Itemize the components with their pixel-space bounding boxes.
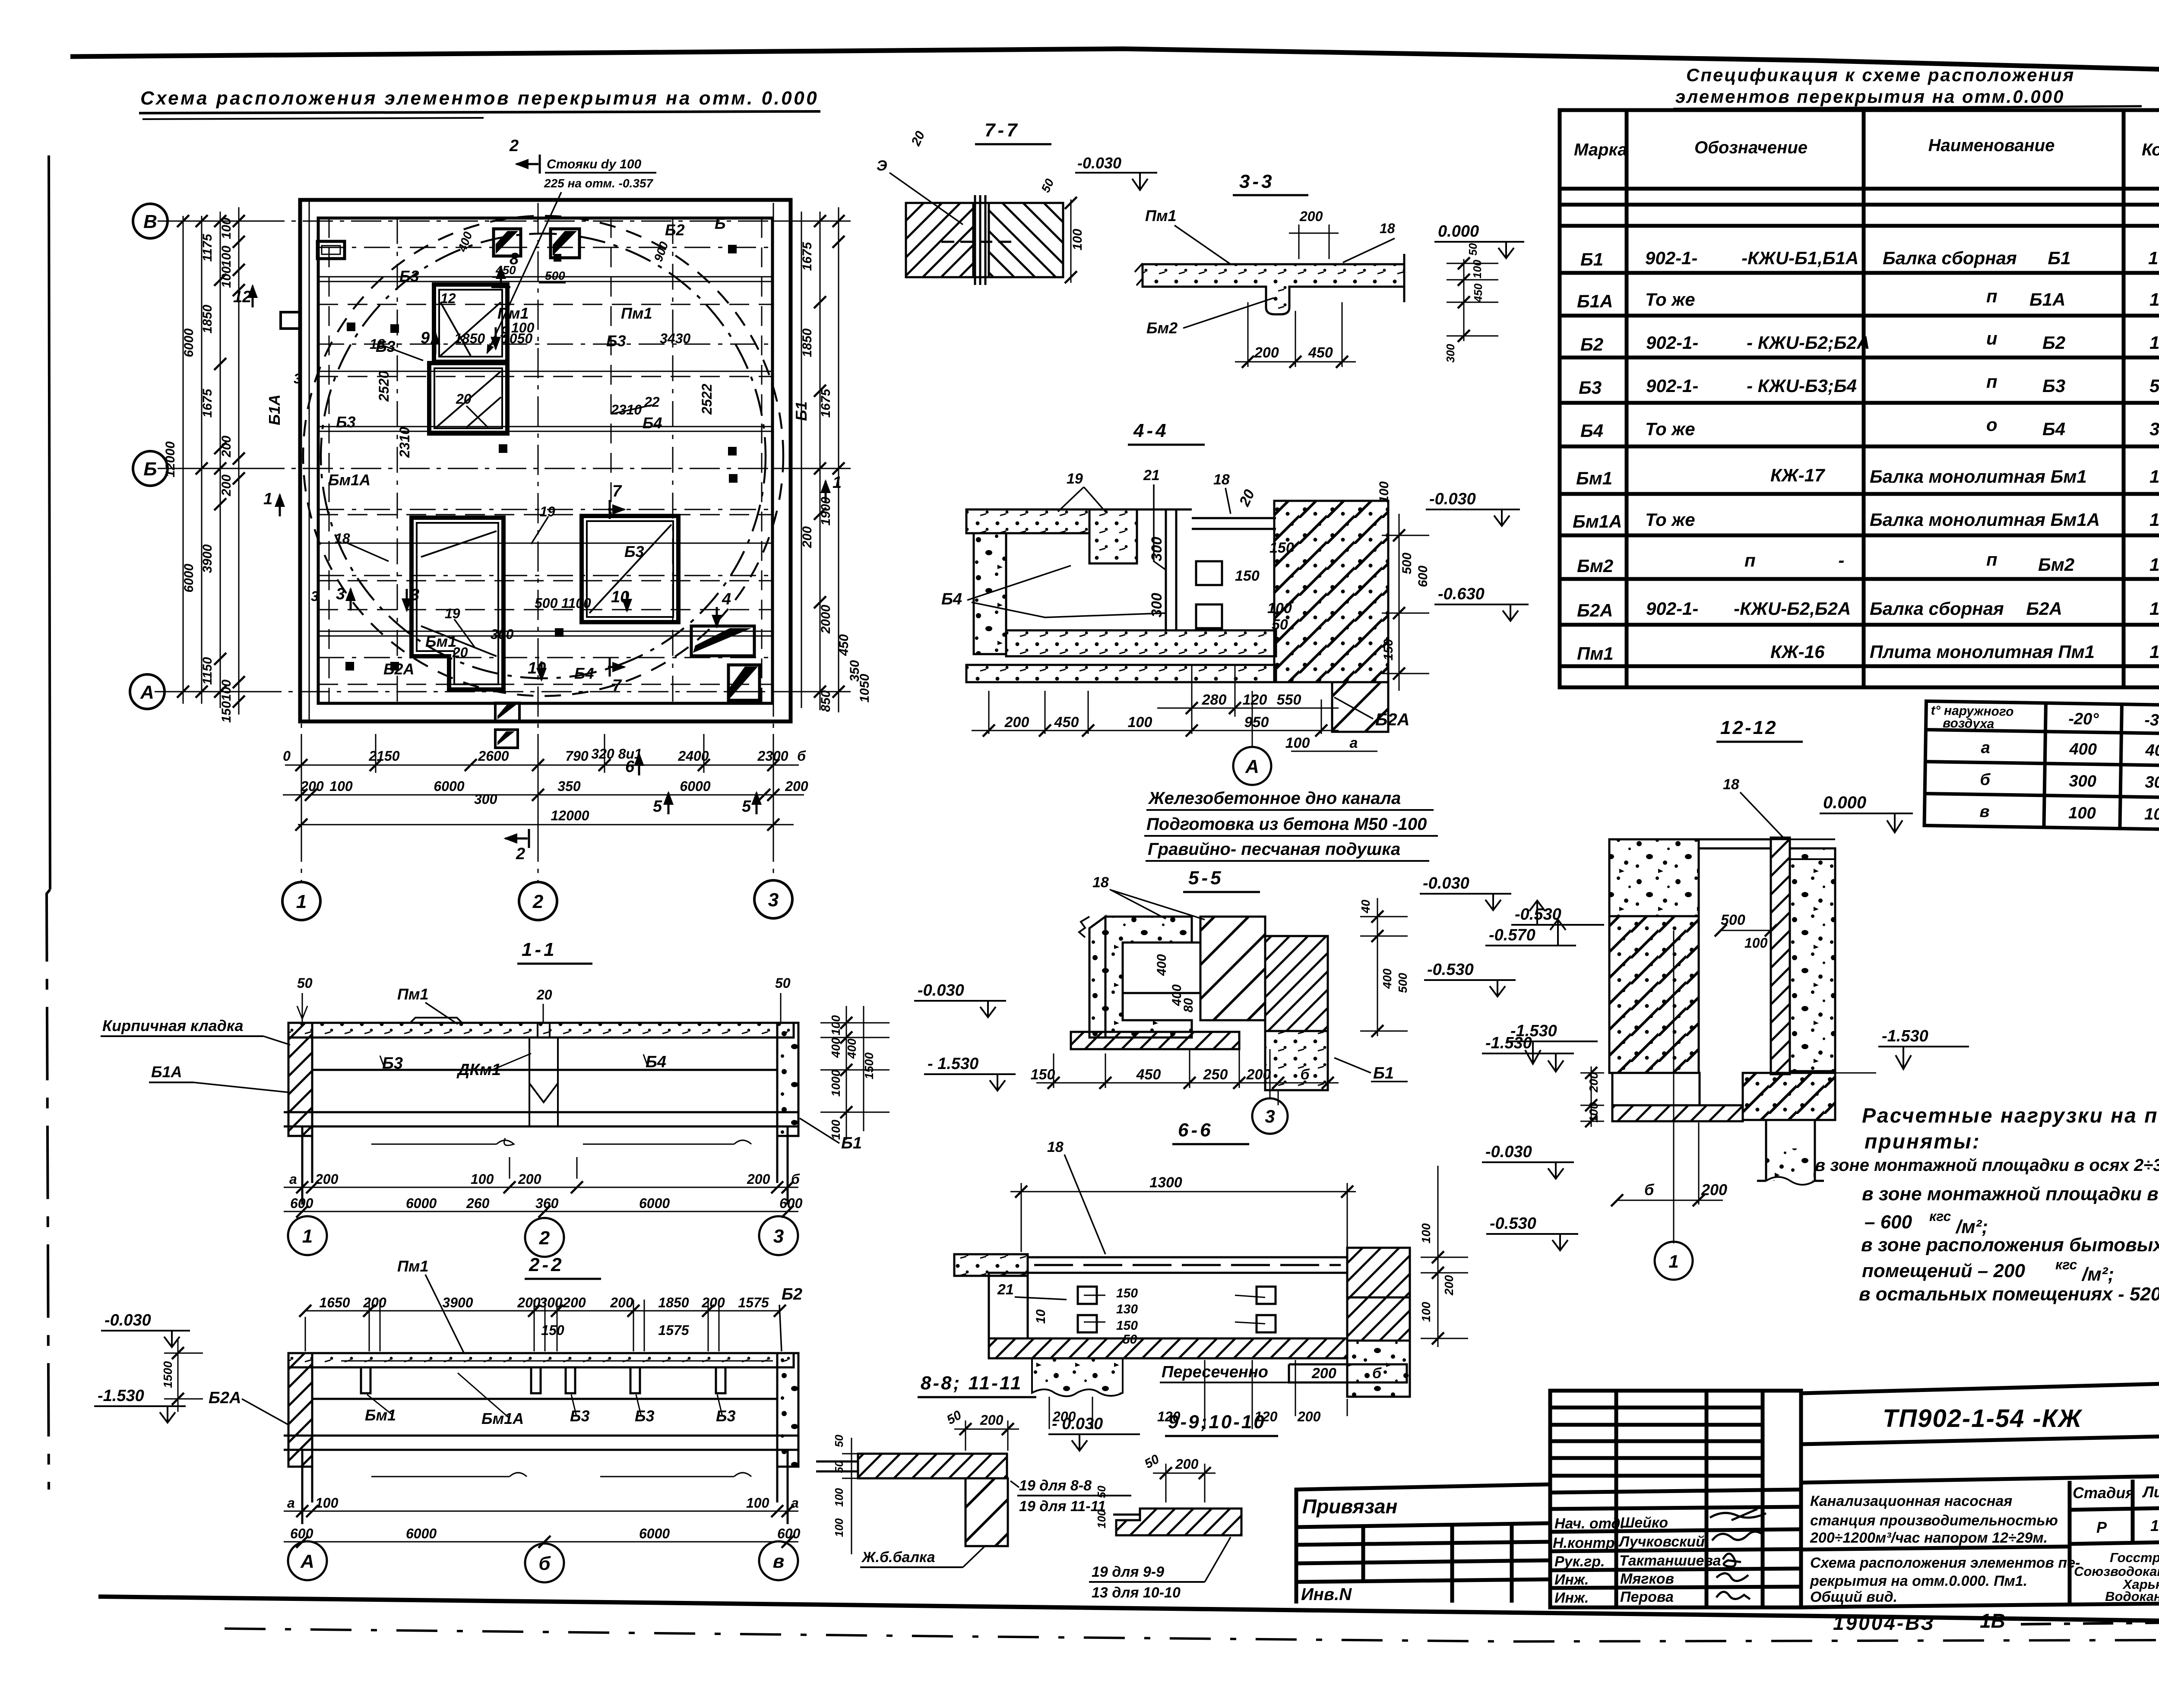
svg-text:1850: 1850 — [200, 304, 215, 333]
svg-text:б: б — [1644, 1181, 1655, 1199]
svg-text:200: 200 — [518, 1171, 541, 1187]
svg-text:3: 3 — [294, 371, 301, 386]
svg-text:а: а — [289, 1171, 297, 1187]
svg-text:200: 200 — [1004, 714, 1029, 731]
svg-text:б: б — [1300, 1066, 1310, 1083]
svg-text:Б3: Б3 — [399, 267, 419, 285]
svg-text:1: 1 — [833, 474, 842, 492]
svg-text:Подготовка из бетона М50 -100: Подготовка из бетона М50 -100 — [1146, 815, 1427, 834]
svg-text:1: 1 — [2150, 598, 2159, 619]
svg-text:-0.030: -0.030 — [1485, 1143, 1532, 1161]
svg-text:600: 600 — [290, 1196, 313, 1211]
svg-text:100: 100 — [1128, 714, 1152, 731]
svg-text:100: 100 — [1095, 1509, 1108, 1528]
svg-text:100: 100 — [829, 1120, 842, 1140]
svg-text:20: 20 — [456, 391, 472, 407]
svg-text:1: 1 — [2150, 332, 2159, 353]
svg-text:– 600: – 600 — [1865, 1211, 1912, 1233]
svg-text:Железобетонное дно канала: Железобетонное дно канала — [1148, 789, 1401, 808]
svg-text:Б1А: Б1А — [2029, 289, 2065, 310]
svg-text:200: 200 — [219, 474, 234, 497]
svg-text:150: 150 — [1235, 568, 1260, 584]
svg-text:1150: 1150 — [200, 657, 215, 685]
svg-text:450: 450 — [495, 263, 516, 277]
svg-text:Б1А: Б1А — [266, 394, 283, 425]
svg-text:2150: 2150 — [368, 748, 399, 764]
svg-text:Обозначение: Обозначение — [1694, 138, 1808, 157]
svg-text:Пм1: Пм1 — [621, 304, 652, 322]
svg-text:3900: 3900 — [200, 544, 215, 573]
svg-text:200: 200 — [1246, 1066, 1271, 1083]
svg-text:2310: 2310 — [611, 402, 642, 418]
svg-text:100: 100 — [829, 1015, 842, 1035]
svg-text:100: 100 — [219, 266, 234, 288]
svg-text:/м²;: /м²; — [2081, 1264, 2114, 1285]
svg-text:200: 200 — [363, 1295, 386, 1310]
svg-text:Б4: Б4 — [1580, 421, 1603, 441]
svg-text:790: 790 — [565, 748, 589, 764]
svg-text:Б2: Б2 — [2042, 332, 2065, 353]
svg-text:Б2: Б2 — [1580, 334, 1603, 354]
svg-text:2400: 2400 — [677, 748, 709, 764]
svg-text:10: 10 — [611, 588, 629, 606]
svg-text:1: 1 — [2150, 554, 2159, 575]
svg-text:Бм1А: Бм1А — [328, 471, 370, 489]
svg-text:600: 600 — [1416, 566, 1430, 587]
svg-text:1900: 1900 — [819, 497, 833, 525]
svg-text:Госстрой СССР: Госстрой СССР — [2110, 1550, 2159, 1565]
svg-text:950: 950 — [1244, 714, 1269, 731]
svg-text:130: 130 — [1116, 1302, 1138, 1316]
svg-text:5-5: 5-5 — [1188, 867, 1224, 889]
svg-text:Привязан: Привязан — [1302, 1495, 1397, 1518]
svg-text:18: 18 — [1213, 471, 1230, 488]
svg-text:200: 200 — [1297, 1409, 1321, 1424]
svg-text:9: 9 — [421, 329, 430, 347]
svg-text:100: 100 — [1267, 600, 1292, 617]
svg-text:1000: 1000 — [829, 1069, 842, 1097]
svg-text:12: 12 — [233, 288, 251, 306]
svg-text:а: а — [1981, 739, 1990, 757]
svg-text:станция производительностью: станция производительностью — [1810, 1512, 2058, 1529]
svg-text:100: 100 — [833, 1518, 845, 1537]
svg-text:- 1.530: - 1.530 — [928, 1055, 978, 1073]
svg-text:в: в — [773, 1551, 785, 1572]
svg-text:100: 100 — [1471, 259, 1484, 278]
svg-text:2: 2 — [509, 137, 519, 155]
svg-text:250: 250 — [1203, 1066, 1228, 1083]
svg-text:7: 7 — [612, 677, 622, 695]
svg-text:1-1: 1-1 — [522, 939, 557, 960]
svg-text:20: 20 — [452, 645, 468, 660]
svg-text:3: 3 — [1265, 1106, 1275, 1126]
svg-text:0: 0 — [283, 748, 291, 764]
svg-text:Пм1: Пм1 — [397, 985, 429, 1003]
svg-text:Схема расположения элементов п: Схема расположения элементов перекрытия … — [140, 88, 819, 109]
svg-text:2: 2 — [516, 845, 525, 863]
svg-text:Пм1: Пм1 — [397, 1257, 429, 1275]
svg-text:-1.530: -1.530 — [1882, 1027, 1928, 1045]
svg-text:200: 200 — [701, 1295, 725, 1310]
svg-text:50: 50 — [1466, 243, 1479, 256]
svg-text:-1.530: -1.530 — [1510, 1022, 1557, 1040]
svg-text:ДКм1: ДКм1 — [456, 1061, 501, 1079]
svg-text:18: 18 — [1723, 776, 1739, 793]
svg-text:21: 21 — [997, 1281, 1014, 1298]
svg-text:3: 3 — [311, 588, 319, 604]
svg-text:Бм1: Бм1 — [365, 1406, 396, 1424]
svg-text:6000: 6000 — [680, 778, 710, 794]
svg-text:Кирпичная кладка: Кирпичная кладка — [102, 1017, 244, 1034]
svg-text:550: 550 — [1277, 692, 1301, 708]
svg-text:Плита монолитная Пм1: Плита монолитная Пм1 — [1870, 642, 2095, 662]
svg-text:То же: То же — [1645, 289, 1695, 310]
svg-text:7: 7 — [612, 482, 622, 500]
svg-text:2522: 2522 — [699, 384, 715, 415]
svg-text:Э: Э — [877, 158, 887, 174]
svg-text:7-7: 7-7 — [985, 120, 1020, 141]
svg-text:1175: 1175 — [200, 233, 215, 262]
svg-text:КЖ-17: КЖ-17 — [1770, 465, 1825, 485]
svg-text:260: 260 — [466, 1196, 490, 1211]
svg-text:6000: 6000 — [639, 1196, 670, 1211]
svg-text:Б4: Б4 — [941, 590, 962, 608]
svg-text:400: 400 — [2145, 741, 2159, 760]
svg-text:Бм1: Бм1 — [1576, 468, 1612, 488]
svg-text:2: 2 — [532, 891, 544, 912]
svg-text:19 для 11-11: 19 для 11-11 — [1019, 1498, 1106, 1515]
svg-text:Канализационная насосная: Канализационная насосная — [1810, 1493, 2012, 1509]
svg-text:20: 20 — [536, 987, 552, 1003]
svg-text:а: а — [1350, 735, 1358, 751]
svg-text:50: 50 — [833, 1435, 845, 1447]
svg-text:Б2: Б2 — [782, 1285, 802, 1303]
svg-text:200: 200 — [315, 1171, 339, 1187]
svg-text:Б3: Б3 — [2042, 376, 2065, 396]
svg-text:150: 150 — [1116, 1286, 1138, 1300]
svg-text:19 для 8-8: 19 для 8-8 — [1019, 1477, 1092, 1494]
svg-text:3: 3 — [336, 585, 345, 603]
svg-text:200: 200 — [1254, 345, 1279, 361]
svg-text:в: в — [1979, 803, 1990, 821]
svg-text:5: 5 — [2150, 376, 2159, 396]
svg-text:б: б — [797, 748, 806, 764]
svg-text:4: 4 — [722, 590, 731, 608]
svg-text:1300: 1300 — [1149, 1174, 1182, 1191]
svg-text:-0.530: -0.530 — [1427, 961, 1474, 979]
svg-text:1500: 1500 — [862, 1052, 876, 1079]
svg-text:Б2: Б2 — [665, 221, 685, 239]
svg-text:-0.030: -0.030 — [1077, 154, 1121, 172]
svg-text:18: 18 — [1380, 221, 1395, 236]
svg-text:450: 450 — [837, 634, 851, 656]
svg-text:2-2: 2-2 — [529, 1254, 564, 1275]
svg-text:200: 200 — [1175, 1456, 1199, 1472]
svg-text:Н.контр.: Н.контр. — [1553, 1535, 1619, 1551]
svg-text:Б3: Б3 — [336, 413, 356, 431]
svg-text:100: 100 — [2144, 805, 2159, 824]
svg-text:200: 200 — [219, 436, 234, 458]
svg-text:6000: 6000 — [406, 1526, 437, 1541]
svg-text:-1.530: -1.530 — [98, 1387, 144, 1405]
svg-text:150: 150 — [1381, 639, 1396, 661]
svg-text:8-8; 11-11: 8-8; 11-11 — [921, 1373, 1023, 1394]
svg-text:6-6: 6-6 — [1178, 1120, 1213, 1141]
svg-text:Инж.: Инж. — [1554, 1572, 1589, 1588]
svg-text:Б2А: Б2А — [209, 1389, 241, 1407]
svg-text:Тактаншиева: Тактаншиева — [1619, 1553, 1721, 1569]
svg-text:3: 3 — [410, 586, 419, 604]
svg-text:-0.030: -0.030 — [104, 1311, 151, 1329]
svg-text:КЖ-16: КЖ-16 — [1770, 642, 1825, 662]
svg-text:в зоне монтажной площадки в ос: в зоне монтажной площадки в осях 1÷2 - — [1862, 1183, 2159, 1205]
svg-text:и: и — [1986, 328, 1998, 348]
svg-text:Спецификация к схеме расположе: Спецификация к схеме расположения — [1686, 65, 2075, 85]
svg-text:100: 100 — [1419, 1223, 1433, 1243]
svg-text:1: 1 — [296, 891, 307, 912]
svg-text:Б1А: Б1А — [151, 1063, 182, 1081]
svg-text:В: В — [143, 211, 157, 232]
svg-text:300: 300 — [539, 1295, 563, 1310]
svg-text:Пересеченно: Пересеченно — [1162, 1363, 1268, 1381]
svg-text:1: 1 — [263, 490, 272, 508]
svg-text:2520: 2520 — [376, 371, 392, 402]
svg-text:100: 100 — [219, 680, 234, 701]
svg-text:150: 150 — [1116, 1319, 1138, 1333]
svg-text:б: б — [1980, 771, 1991, 789]
svg-text:Б1А: Б1А — [1577, 291, 1613, 311]
svg-text:а: а — [791, 1495, 799, 1511]
svg-text:Б4: Б4 — [643, 414, 662, 432]
svg-text:200: 200 — [517, 1295, 541, 1310]
svg-text:350: 350 — [557, 778, 581, 794]
svg-text:-30°: -30° — [2144, 711, 2159, 730]
svg-text:50: 50 — [1123, 1332, 1137, 1347]
svg-text:100: 100 — [219, 218, 234, 239]
svg-text:Б3: Б3 — [635, 1407, 655, 1425]
svg-text:300: 300 — [2145, 773, 2159, 792]
svg-text:Б1: Б1 — [1580, 249, 1603, 269]
svg-text:902-1- - КЖU-Б2;Б2А: 902-1- - КЖU-Б2;Б2А — [1646, 332, 1870, 353]
svg-text:902-1- -КЖU-Б2,Б2А: 902-1- -КЖU-Б2,Б2А — [1646, 598, 1851, 619]
svg-text:400: 400 — [1155, 954, 1169, 976]
svg-text:3: 3 — [2150, 419, 2159, 439]
svg-text:300: 300 — [1444, 344, 1457, 363]
svg-text:500: 500 — [1400, 553, 1414, 574]
svg-text:50: 50 — [775, 975, 791, 991]
svg-text:б: б — [791, 1171, 800, 1187]
svg-text:3430: 3430 — [660, 331, 690, 346]
svg-text:19 для 9-9: 19 для 9-9 — [1092, 1564, 1164, 1580]
svg-text:200÷1200м³/час напором 12÷29м.: 200÷1200м³/час напором 12÷29м. — [1810, 1530, 2048, 1546]
svg-text:0.000: 0.000 — [1438, 222, 1479, 240]
svg-text:50: 50 — [1272, 617, 1288, 633]
svg-text:п: п — [1986, 549, 1998, 569]
svg-text:-0.570: -0.570 — [1489, 926, 1535, 944]
svg-text:600: 600 — [777, 1526, 801, 1541]
svg-text:Р: Р — [2096, 1518, 2107, 1536]
svg-text:в зоне монтажной площадки в ос: в зоне монтажной площадки в осях 2÷3 –21… — [1815, 1156, 2159, 1175]
svg-text:12: 12 — [440, 291, 456, 306]
svg-text:-0.530: -0.530 — [1490, 1215, 1536, 1233]
svg-text:100: 100 — [329, 778, 353, 794]
svg-text:б: б — [538, 1553, 551, 1574]
svg-text:Общий вид.: Общий вид. — [1810, 1589, 1897, 1605]
svg-text:500: 500 — [545, 269, 565, 282]
svg-text:Расчетные нагрузки на перекрыт: Расчетные нагрузки на перекрытие — [1862, 1104, 2159, 1127]
svg-text:Бм1: Бм1 — [425, 633, 456, 650]
svg-text:Б2А: Б2А — [1577, 600, 1613, 620]
svg-text:200: 200 — [562, 1295, 586, 1310]
svg-text:Рук.гр.: Рук.гр. — [1554, 1553, 1605, 1570]
svg-text:Б1: Б1 — [841, 1134, 862, 1152]
svg-text:ТП902-1-54 -КЖ: ТП902-1-54 -КЖ — [1883, 1404, 2083, 1433]
svg-text:Марка: Марка — [1574, 140, 1627, 159]
svg-text:Б4: Б4 — [574, 664, 594, 682]
svg-text:2600: 2600 — [478, 748, 509, 764]
svg-text:18: 18 — [370, 336, 385, 352]
svg-text:150: 150 — [219, 701, 234, 723]
svg-text:10: 10 — [1034, 1309, 1048, 1324]
svg-text:Пм1: Пм1 — [1145, 207, 1177, 225]
svg-text:400: 400 — [829, 1037, 842, 1058]
svg-text:12-12: 12-12 — [1720, 717, 1778, 738]
svg-text:А: А — [140, 682, 154, 703]
svg-text:-0.030: -0.030 — [1423, 874, 1469, 892]
svg-text:- 0.030: - 0.030 — [1052, 1415, 1103, 1433]
svg-text:элементов перекрытия на отм.0.: элементов перекрытия на отм.0.000 — [1675, 86, 2064, 107]
svg-text:помещений – 200: помещений – 200 — [1862, 1260, 2025, 1281]
svg-text:100: 100 — [511, 320, 535, 335]
svg-text:-0.030: -0.030 — [918, 981, 964, 999]
svg-text:100: 100 — [315, 1495, 339, 1511]
svg-text:4-4: 4-4 — [1133, 420, 1169, 441]
svg-text:15: 15 — [2150, 1517, 2159, 1534]
svg-text:Б4: Б4 — [646, 1053, 666, 1071]
svg-text:Лист: Лист — [2142, 1483, 2159, 1501]
svg-text:Перова: Перова — [1620, 1589, 1674, 1605]
svg-text:Нач. отд.: Нач. отд. — [1554, 1515, 1624, 1532]
svg-text:-20°: -20° — [2068, 710, 2099, 728]
svg-text:200: 200 — [1299, 209, 1323, 224]
svg-text:Мягков: Мягков — [1620, 1571, 1674, 1587]
svg-text:400: 400 — [1380, 968, 1394, 989]
svg-text:300: 300 — [2069, 772, 2096, 791]
svg-text:п: п — [1986, 286, 1998, 306]
svg-text:1675: 1675 — [200, 388, 215, 418]
svg-text:225 на отм. -0.357: 225 на отм. -0.357 — [544, 177, 653, 190]
svg-text:500: 500 — [535, 595, 558, 611]
svg-text:100: 100 — [1419, 1302, 1433, 1322]
svg-text:360: 360 — [535, 1196, 559, 1211]
svg-text:1: 1 — [2150, 466, 2159, 487]
svg-text:1575: 1575 — [738, 1295, 769, 1310]
svg-text:Наименование: Наименование — [1928, 136, 2055, 155]
svg-text:100: 100 — [471, 1171, 494, 1187]
svg-text:Ж.б.балка: Ж.б.балка — [861, 1549, 935, 1566]
svg-text:450: 450 — [1308, 345, 1333, 361]
svg-text:450: 450 — [1472, 283, 1485, 303]
svg-text:500: 500 — [1396, 973, 1409, 993]
svg-text:Б4: Б4 — [2042, 419, 2065, 439]
svg-text:3-3: 3-3 — [1239, 171, 1275, 192]
svg-text:9-9;10-10: 9-9;10-10 — [1168, 1411, 1266, 1433]
svg-text:902-1- - КЖU-Б3;Б4: 902-1- - КЖU-Б3;Б4 — [1646, 376, 1857, 396]
svg-text:Лучковский: Лучковский — [1618, 1534, 1705, 1550]
svg-text:200: 200 — [747, 1171, 770, 1187]
svg-text:100: 100 — [746, 1495, 769, 1511]
svg-text:450: 450 — [1054, 714, 1079, 731]
svg-text:Гравийно- песчаная подушка: Гравийно- песчаная подушка — [1148, 840, 1400, 859]
svg-text:12000: 12000 — [163, 441, 177, 478]
svg-text:о: о — [1986, 414, 1998, 435]
svg-text:Бм2: Бм2 — [1577, 556, 1613, 576]
svg-text:100: 100 — [1744, 935, 1768, 951]
svg-text:50: 50 — [833, 1461, 845, 1473]
svg-text:б: б — [1372, 1365, 1382, 1382]
svg-text:То же: То же — [1645, 419, 1695, 439]
svg-text:902-1- -КЖU-Б1,Б1А: 902-1- -КЖU-Б1,Б1А — [1645, 248, 1858, 268]
svg-text:1850: 1850 — [658, 1295, 689, 1310]
svg-text:500: 500 — [1721, 912, 1745, 928]
svg-text:1850: 1850 — [454, 331, 485, 346]
svg-text:Балка монолитная Бм1: Балка монолитная Бм1 — [1870, 466, 2087, 487]
svg-text:Кол.: Кол. — [2142, 140, 2159, 159]
svg-text:18: 18 — [1092, 874, 1109, 891]
svg-text:200: 200 — [1442, 1275, 1456, 1296]
svg-text:13 для 10-10: 13 для 10-10 — [1092, 1585, 1181, 1601]
svg-text:а: а — [287, 1495, 295, 1511]
svg-text:300: 300 — [474, 791, 497, 807]
svg-text:в зоне расположения бытовых: в зоне расположения бытовых — [1861, 1234, 2159, 1256]
svg-text:2: 2 — [539, 1227, 550, 1249]
svg-text:Б2А: Б2А — [383, 660, 415, 678]
svg-text:Водоканалпроект: Водоканалпроект — [2105, 1589, 2159, 1604]
svg-text:200: 200 — [610, 1295, 633, 1310]
svg-text:5: 5 — [653, 797, 662, 816]
svg-text:400: 400 — [845, 1038, 858, 1059]
svg-text:Б: Б — [715, 215, 726, 232]
svg-text:18: 18 — [1047, 1139, 1064, 1155]
svg-text:1В: 1В — [1980, 1610, 2005, 1632]
svg-text:Б: Б — [143, 459, 157, 480]
svg-text:1: 1 — [2148, 248, 2158, 268]
svg-text:Б3: Б3 — [570, 1407, 590, 1425]
svg-text:320 8и1: 320 8и1 — [591, 746, 642, 762]
svg-text:Стадия: Стадия — [2073, 1484, 2134, 1502]
svg-text:рекрытия на отм.0.000. Пм1.: рекрытия на отм.0.000. Пм1. — [1810, 1573, 2027, 1589]
svg-text:100: 100 — [1285, 735, 1310, 751]
svg-text:Инж.: Инж. — [1554, 1590, 1589, 1606]
svg-text:100: 100 — [1070, 229, 1085, 250]
svg-text:приняты:: приняты: — [1865, 1130, 1981, 1153]
svg-text:То же: То же — [1645, 509, 1695, 530]
svg-text:1: 1 — [2150, 642, 2159, 662]
svg-text:1: 1 — [1668, 1251, 1678, 1272]
svg-text:200: 200 — [1701, 1181, 1727, 1199]
svg-text:Балка сборная Б2А: Балка сборная Б2А — [1870, 598, 2062, 619]
svg-text:22: 22 — [644, 394, 660, 410]
svg-text:3: 3 — [768, 889, 779, 911]
svg-text:Б3: Б3 — [382, 1054, 403, 1072]
svg-text:воздуха: воздуха — [1943, 716, 1994, 731]
svg-text:1: 1 — [2150, 509, 2159, 530]
svg-text:в остальных помещениях - 520: в остальных помещениях - 520 — [1859, 1284, 2159, 1305]
svg-text:2300: 2300 — [757, 748, 788, 764]
svg-text:6000: 6000 — [406, 1196, 437, 1211]
svg-text:-0.030: -0.030 — [1429, 490, 1476, 508]
svg-text:150: 150 — [1269, 540, 1294, 556]
